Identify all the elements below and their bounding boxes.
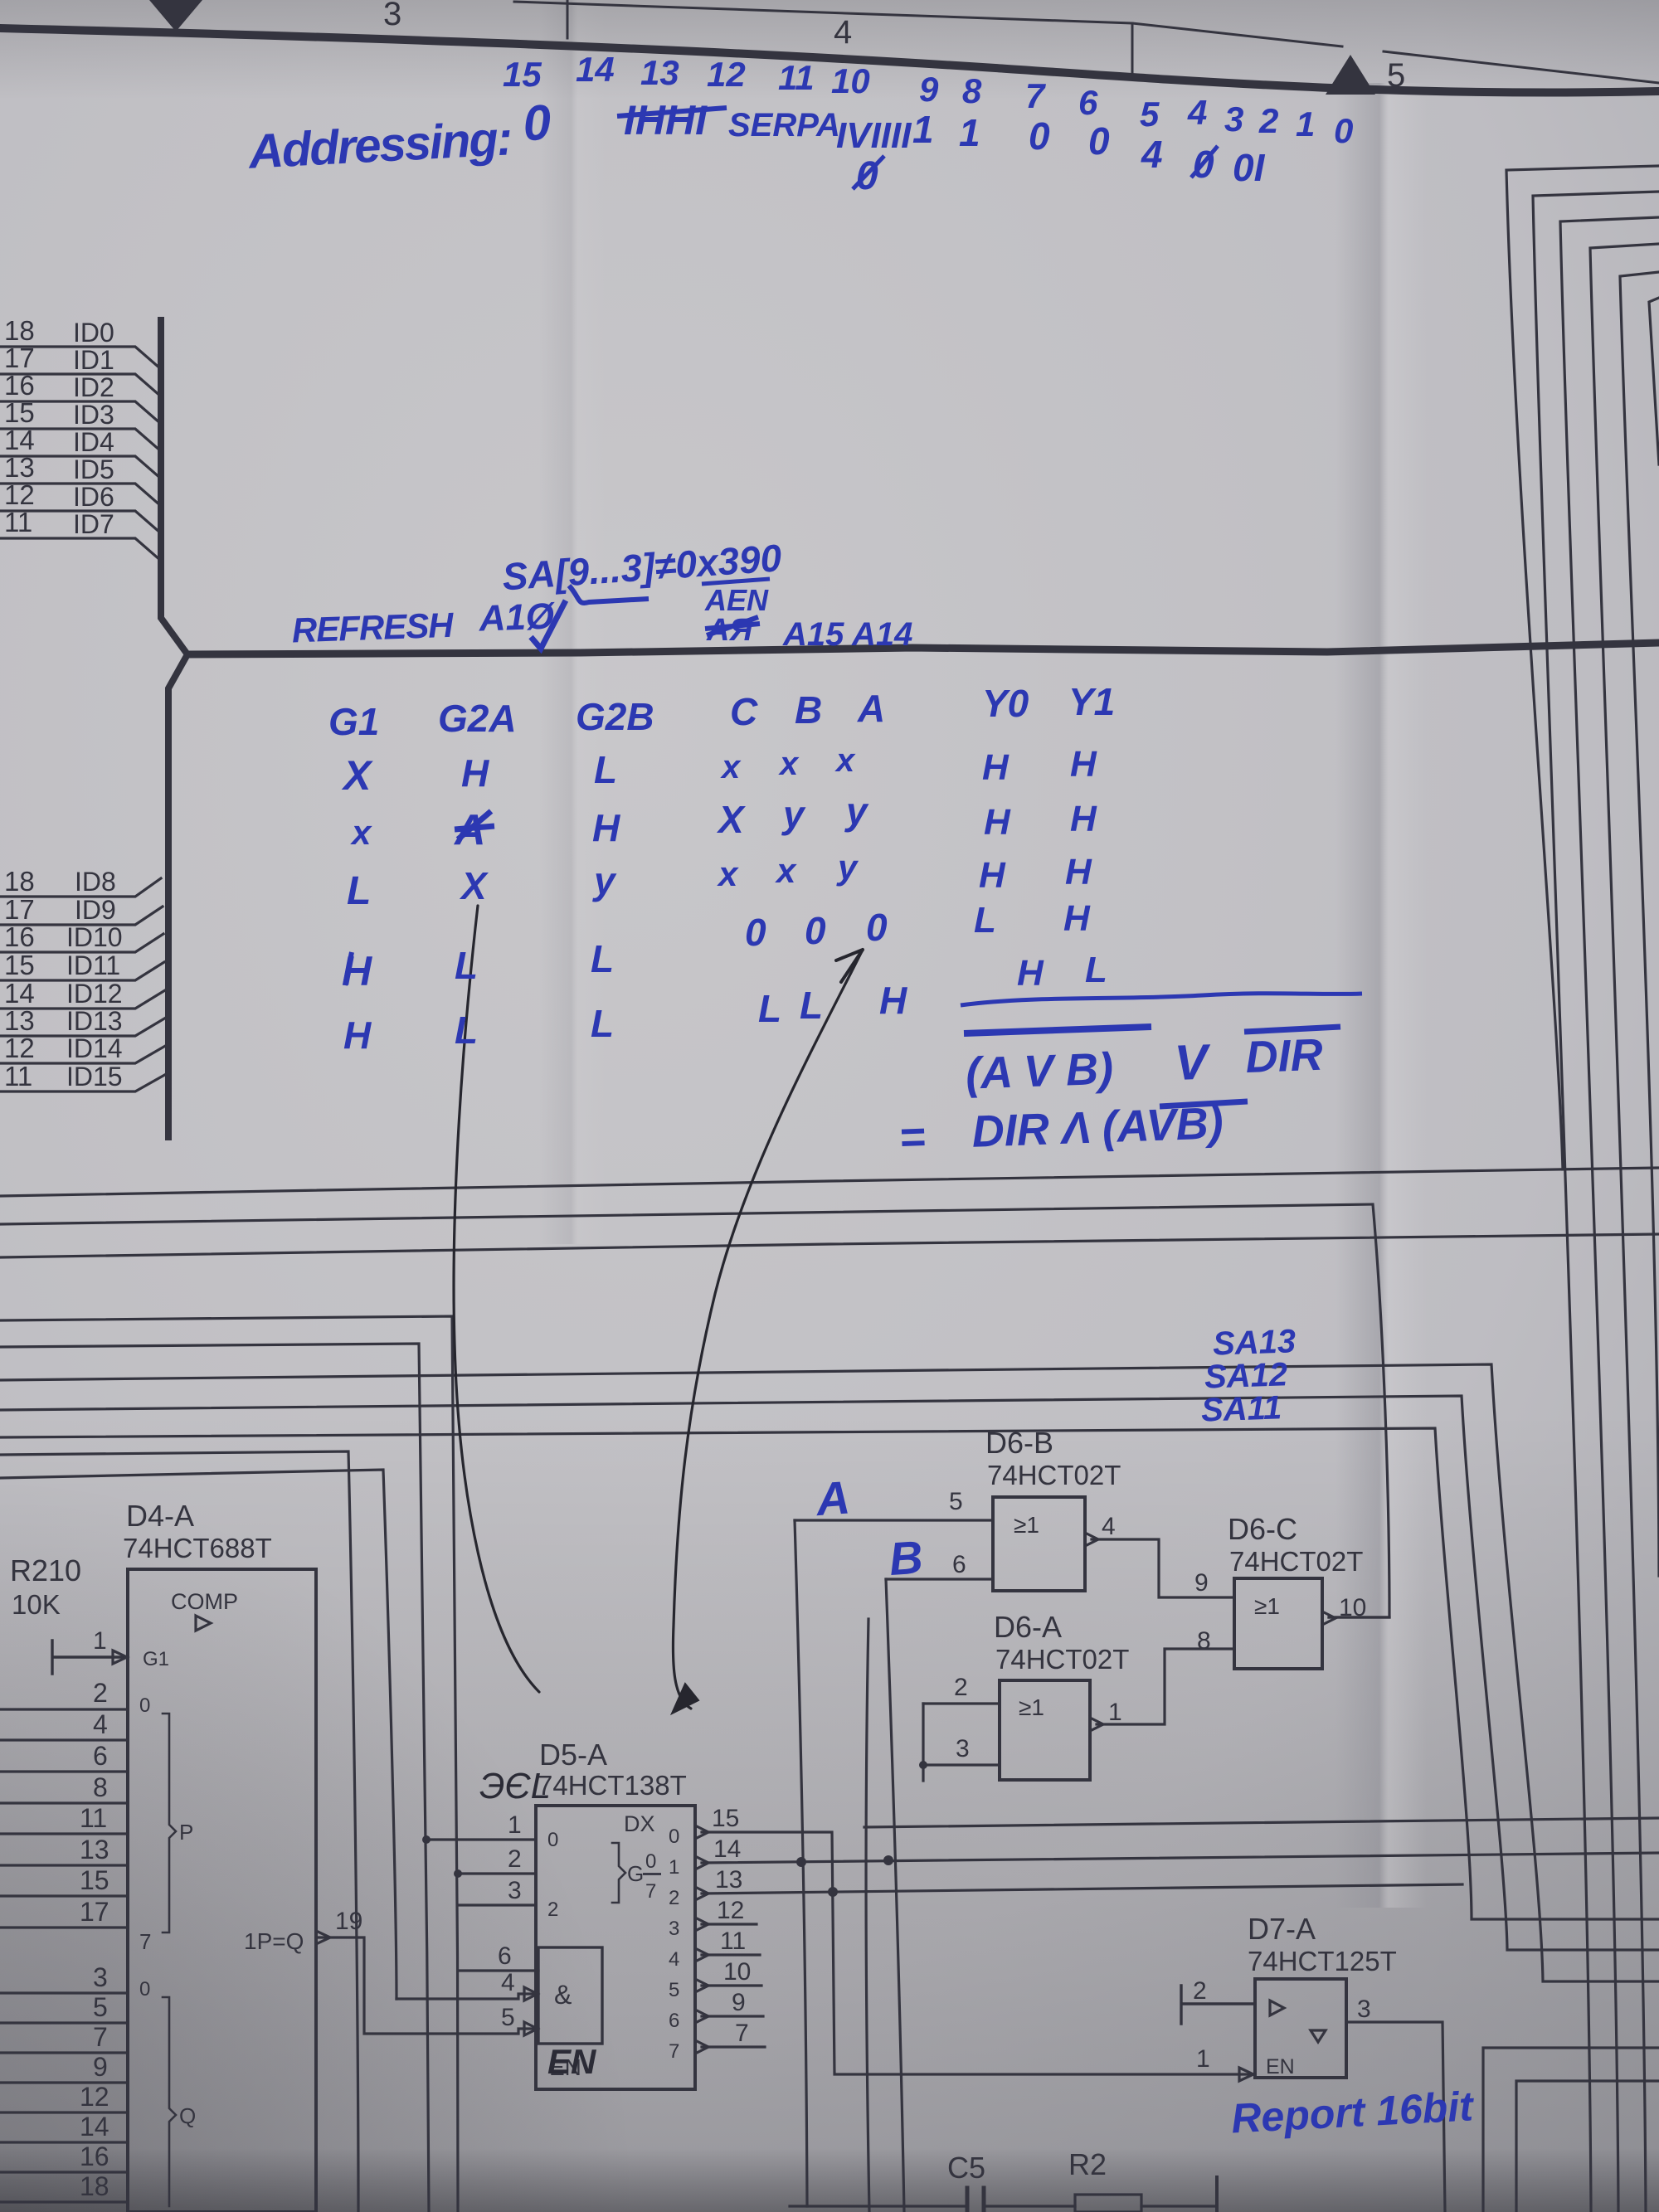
svg-text:6: 6	[93, 1741, 108, 1771]
svg-text:A1Ø: A1Ø	[478, 596, 557, 639]
svg-text:H: H	[1063, 898, 1091, 939]
handwritten note Report 16bit	[1230, 2083, 1477, 2142]
D5 output pin 7 marker	[695, 2040, 708, 2054]
short vertical joining net Y0 row	[866, 1619, 869, 2212]
D4 O-group pin 16 wire	[0, 2171, 128, 2173]
D4 O-group pin 7 wire	[0, 2051, 128, 2054]
net L1 horizontal bus wire	[0, 1168, 1659, 1196]
svg-text:5: 5	[949, 1488, 963, 1515]
svg-text:V: V	[1174, 1033, 1213, 1091]
net SA12 wire	[0, 1396, 1659, 1950]
wire ID12	[0, 990, 165, 1009]
svg-text:3: 3	[956, 1735, 970, 1762]
D5 output pin 12 marker	[695, 1918, 708, 1931]
svg-text:R210: R210	[10, 1553, 81, 1587]
D4 output pin 19 marker	[316, 1931, 330, 1944]
bottom right box corner 1	[1483, 2048, 1659, 2212]
net L9 wire cornering down left of D5	[0, 1451, 358, 2212]
svg-text:L: L	[591, 937, 614, 980]
D5 pin 3 wire	[458, 1903, 536, 1906]
top right nested corner wire 2	[1533, 192, 1659, 2212]
svg-text:15: 15	[80, 1865, 109, 1895]
D5 enable AND sub-block	[538, 1947, 602, 2044]
D4 P-group pin 2 wire	[0, 1708, 128, 1710]
REFRESH A10 note with check	[291, 596, 557, 649]
svg-text:≥1: ≥1	[1014, 1512, 1039, 1538]
capacitor C5 plates	[967, 2188, 984, 2212]
svg-text:ID6: ID6	[73, 482, 114, 512]
svg-text:G: G	[627, 1861, 644, 1886]
svg-text:ID13: ID13	[66, 1006, 123, 1036]
tt row4 G1 H-scribble	[342, 948, 372, 994]
svg-text:5: 5	[1140, 95, 1160, 134]
D6-A pin 2 wire	[923, 1702, 1000, 1704]
svg-text:5: 5	[1387, 57, 1405, 94]
svg-text:2: 2	[669, 1887, 679, 1909]
data bus horizontal main segment	[187, 643, 1659, 654]
svg-text:3: 3	[93, 1962, 108, 1992]
svg-text:0: 0	[1334, 111, 1353, 150]
svg-text:ID0: ID0	[73, 318, 114, 348]
svg-text:7: 7	[139, 1929, 151, 1954]
svg-text:6: 6	[1078, 83, 1098, 122]
svg-text:7: 7	[735, 2020, 749, 2047]
top right nested corner wire 4	[1590, 244, 1659, 2212]
junction D5 pin 2 on L4 vertical	[454, 1869, 462, 1878]
sheet border top thin line	[514, 2, 1659, 83]
hand-drawn arrow curve from D5 area to truth table 0	[673, 950, 863, 1709]
net vertical to D6-A pins 2/3 down to bottom	[922, 1704, 924, 1781]
D5 output pin 11 marker	[695, 1948, 708, 1962]
crossed out A-blob	[705, 613, 760, 648]
wire ID1	[0, 374, 161, 396]
svg-text:B: B	[888, 1530, 925, 1585]
svg-text:(A V B): (A V B)	[965, 1044, 1114, 1099]
svg-text:12: 12	[717, 1897, 744, 1924]
svg-text:y: y	[844, 790, 869, 833]
svg-text:H: H	[879, 979, 907, 1022]
svg-text:D7-A: D7-A	[1248, 1912, 1316, 1946]
handwritten net label SA11	[1200, 1389, 1282, 1428]
svg-text:L: L	[594, 748, 617, 791]
D5 output pin 14 net to right edge	[702, 1853, 1659, 1863]
svg-text:G1: G1	[143, 1648, 169, 1670]
bottom right box corner 2	[1516, 2081, 1659, 2212]
svg-text:H: H	[343, 1014, 372, 1057]
D4 P-group pin 8 wire	[0, 1801, 128, 1804]
svg-text:17: 17	[80, 1897, 109, 1927]
svg-text:15: 15	[4, 950, 35, 980]
svg-text:ЭЄL: ЭЄL	[479, 1766, 551, 1806]
svg-text:≥1: ≥1	[1019, 1694, 1044, 1720]
svg-text:0: 0	[139, 1978, 150, 2001]
svg-text:0: 0	[805, 909, 826, 952]
net L3 horizontal bus wire	[0, 1234, 1659, 1257]
svg-text:3: 3	[508, 1877, 522, 1904]
svg-text:4: 4	[669, 1948, 679, 1971]
svg-text:13: 13	[715, 1866, 742, 1894]
net Y0 horizontal to right edge	[864, 1818, 1659, 1827]
svg-text:AEN: AEN	[704, 583, 769, 617]
wire ID11	[0, 962, 164, 980]
svg-text:A: A	[857, 687, 885, 730]
svg-text:9: 9	[919, 70, 939, 109]
svg-text:D4-A: D4-A	[126, 1499, 194, 1533]
svg-text:1: 1	[1196, 2045, 1210, 2073]
svg-text:ID7: ID7	[73, 509, 114, 539]
svg-text:17: 17	[4, 894, 35, 925]
svg-text:19: 19	[335, 1908, 362, 1935]
svg-text:1: 1	[508, 1811, 522, 1839]
svg-text:16: 16	[4, 921, 35, 952]
svg-text:18: 18	[4, 315, 35, 346]
svg-text:ID2: ID2	[73, 372, 114, 402]
svg-text:0: 0	[1088, 119, 1110, 163]
svg-text:12: 12	[707, 55, 746, 94]
arrowhead of hand-drawn arrow	[836, 950, 863, 982]
vertical stub right of R2	[1215, 2177, 1219, 2212]
svg-text:A15 A14: A15 A14	[782, 616, 912, 653]
svg-text:11: 11	[778, 58, 815, 97]
svg-text:6: 6	[498, 1942, 512, 1970]
resistor R2 body	[1075, 2195, 1141, 2212]
svg-text:L: L	[1085, 950, 1107, 990]
svg-text:0: 0	[866, 906, 888, 949]
svg-text:IVIIII: IVIIII	[836, 115, 912, 156]
svg-text:1: 1	[1108, 1699, 1122, 1726]
svg-text:7: 7	[645, 1880, 656, 1903]
svg-text:6: 6	[669, 2010, 679, 2032]
svg-text:14: 14	[4, 978, 35, 1009]
D4 pin 1 input marker	[113, 1650, 127, 1664]
svg-text:A: A	[813, 1471, 852, 1525]
svg-text:3: 3	[1357, 1996, 1371, 2023]
svg-text:0: 0	[522, 95, 552, 152]
svg-text:4: 4	[1102, 1513, 1116, 1540]
svg-text:L: L	[455, 944, 478, 987]
svg-text:ID9: ID9	[75, 895, 116, 925]
svg-text:x: x	[775, 851, 797, 890]
svg-text:16: 16	[80, 2142, 109, 2171]
D4 P-group pin 11 wire	[0, 1832, 128, 1835]
svg-text:5: 5	[501, 2004, 515, 2031]
svg-text:5: 5	[669, 1979, 679, 2001]
handwritten node label A	[813, 1471, 852, 1525]
wire ID5	[0, 484, 161, 506]
svg-text:G1: G1	[328, 700, 379, 743]
D5 output pin 10 marker	[695, 1979, 708, 1992]
svg-text:3: 3	[1224, 100, 1243, 139]
svg-text:2: 2	[547, 1898, 558, 1921]
svg-text:5: 5	[93, 1992, 108, 2022]
svg-text:4: 4	[93, 1709, 108, 1739]
svg-text:y: y	[836, 848, 859, 887]
svg-text:8: 8	[93, 1772, 108, 1802]
D4 P-group pin 4 wire	[0, 1738, 128, 1741]
svg-text:y: y	[781, 793, 806, 836]
crossed-out HH bits	[617, 97, 727, 143]
AEN label with overline	[702, 579, 770, 617]
D6-C NOR gate body	[1234, 1578, 1322, 1669]
svg-text:x: x	[720, 749, 742, 785]
wire ID3	[0, 429, 161, 451]
D5 output pin 13 marker	[695, 1887, 708, 1900]
junction D5 pin 1	[422, 1835, 431, 1844]
svg-text:0I: 0I	[1233, 146, 1266, 189]
crossed zero below	[853, 154, 884, 198]
svg-text:L: L	[591, 1002, 614, 1045]
top right nested corner wire 3	[1560, 217, 1659, 2212]
svg-text:14: 14	[576, 50, 615, 89]
svg-text:0: 0	[669, 1826, 679, 1848]
svg-text:ID15: ID15	[66, 1062, 123, 1091]
svg-text:D6-C: D6-C	[1228, 1512, 1297, 1546]
svg-text:12: 12	[4, 1033, 35, 1063]
svg-text:2: 2	[954, 1674, 968, 1701]
svg-text:2: 2	[93, 1678, 108, 1708]
wire ID13	[0, 1018, 166, 1036]
border tick between zones 4 and 5	[1131, 23, 1134, 76]
svg-text:11: 11	[4, 1061, 32, 1091]
svg-text:x: x	[350, 813, 372, 852]
svg-text:0: 0	[645, 1850, 656, 1873]
D6-B pin 5 wire	[795, 1519, 993, 1521]
svg-text:6: 6	[952, 1551, 966, 1578]
D5 output pin 9 stub	[702, 2015, 763, 2017]
svg-text:74HCT125T: 74HCT125T	[1248, 1946, 1397, 1976]
D4 O-group bracket	[163, 1997, 176, 2206]
D4 O-group pin 3 wire	[0, 1991, 128, 1994]
svg-text:18: 18	[80, 2171, 109, 2201]
svg-text:H: H	[1070, 799, 1097, 839]
check mark	[531, 600, 566, 649]
svg-text:15: 15	[4, 397, 35, 428]
svg-text:1: 1	[959, 111, 980, 154]
svg-text:10: 10	[831, 61, 870, 100]
D7 buffer body 74HCT125	[1255, 1979, 1346, 2078]
wire R2 to right vertical	[1141, 2205, 1217, 2207]
svg-text:11: 11	[720, 1928, 746, 1955]
D4 P-group pin 6 wire	[0, 1770, 128, 1772]
svg-text:C: C	[730, 690, 758, 733]
D5 output pin 10 stub	[702, 1984, 761, 1986]
svg-text:IHHI: IHHI	[624, 97, 708, 143]
wire ID14	[0, 1045, 167, 1063]
svg-text:G2B: G2B	[576, 695, 654, 738]
svg-text:4: 4	[501, 1969, 515, 1996]
svg-text:7: 7	[93, 2022, 108, 2052]
svg-text:10: 10	[1339, 1594, 1366, 1621]
svg-text:14: 14	[713, 1835, 741, 1863]
handwritten JEL scribble next to D5 label	[479, 1766, 551, 1806]
D4 comparator body 74HCT688	[128, 1569, 316, 2212]
top right nested corner wire 5	[1620, 272, 1659, 1576]
D5 output pin 7 stub	[702, 2045, 765, 2048]
D5 pin 4 wire	[397, 1994, 538, 1999]
svg-text:0: 0	[745, 911, 766, 954]
svg-text:H: H	[1070, 744, 1097, 785]
svg-text:1: 1	[669, 1856, 679, 1879]
svg-text:2: 2	[1193, 1977, 1207, 2005]
svg-text:1: 1	[1296, 105, 1315, 143]
note Addressing: 0	[245, 95, 552, 179]
svg-text:ID12: ID12	[66, 979, 123, 1009]
svg-text:H: H	[982, 747, 1010, 788]
svg-text:DX: DX	[624, 1811, 655, 1836]
svg-text:H: H	[984, 802, 1011, 843]
junction D6-A pin 3	[919, 1761, 927, 1769]
handwritten net label SA12	[1204, 1356, 1288, 1395]
svg-text:ID5: ID5	[73, 455, 114, 484]
svg-text:74HCT138T: 74HCT138T	[538, 1770, 687, 1801]
svg-text:H: H	[1017, 953, 1044, 994]
overline above (AvB)	[1160, 1101, 1248, 1106]
D4 O-group pin 9 wire	[0, 2081, 128, 2083]
svg-text:H: H	[461, 751, 489, 795]
net SA13 wire	[0, 1364, 1659, 1981]
svg-text:x: x	[778, 746, 800, 782]
svg-text:x: x	[717, 854, 739, 893]
D6-B output pin 4 marker	[1085, 1533, 1098, 1546]
svg-text:13: 13	[4, 1005, 35, 1036]
svg-text:G2A: G2A	[438, 697, 517, 740]
svg-text:X: X	[341, 752, 373, 799]
svg-text:1: 1	[912, 108, 934, 151]
formula (A v B) v DIR	[965, 1030, 1324, 1099]
net L2 wire with corner to D6-C output column	[0, 1204, 1389, 1617]
svg-text:H: H	[592, 806, 620, 849]
svg-text:L: L	[758, 987, 781, 1030]
svg-text:14: 14	[4, 425, 35, 455]
svg-text:REFRESH: REFRESH	[291, 605, 455, 650]
svg-text:R2: R2	[1068, 2147, 1107, 2181]
data bus fork to lower segment	[168, 654, 187, 1137]
svg-text:B: B	[795, 688, 822, 732]
D5 output pin 13 net	[702, 1884, 1462, 1894]
long overline above formula	[961, 994, 1362, 1005]
net L5 wire cornering down to D5 pin 1	[0, 1344, 429, 2212]
svg-text:H: H	[1065, 852, 1092, 892]
D4 P-group pin 17 wire	[0, 1926, 128, 1928]
bottom wire into capacitor C5	[790, 2205, 965, 2207]
svg-text:ID1: ID1	[73, 345, 114, 375]
svg-text:11: 11	[80, 1803, 107, 1833]
net L10 wire cornering down to D5 pin 4	[0, 1470, 397, 1999]
svg-text:12: 12	[4, 479, 35, 510]
D4 COMP function triangle	[196, 1616, 211, 1631]
svg-text:Y0: Y0	[982, 682, 1029, 725]
svg-text:X: X	[716, 798, 746, 841]
svg-text:Q: Q	[179, 2103, 196, 2128]
wire ID2	[0, 401, 161, 424]
svg-text:L: L	[974, 900, 996, 941]
svg-text:X: X	[459, 864, 489, 907]
svg-text:13: 13	[4, 452, 35, 483]
D5 output pin 14 marker	[695, 1856, 708, 1869]
svg-text:1: 1	[93, 1627, 107, 1655]
D6-A pin 3 wire	[923, 1763, 1000, 1766]
wire ID6	[0, 511, 161, 533]
D4 O-group pin 18 wire	[0, 2200, 128, 2203]
svg-text:ID11: ID11	[66, 950, 120, 980]
svg-text:COMP: COMP	[171, 1589, 238, 1614]
hand-drawn curve from truth table X to D5 label	[454, 906, 539, 1692]
brace squiggle under SA note	[569, 586, 649, 603]
svg-text:7: 7	[669, 2040, 679, 2063]
D4 O-group pin 12 wire	[0, 2111, 128, 2113]
net A vertical from D6-B pin 5 down to bottom	[795, 1520, 807, 2206]
short double overline	[964, 1027, 1151, 1033]
wire ID7	[0, 538, 161, 561]
svg-text:74HCT02T: 74HCT02T	[1229, 1546, 1363, 1577]
svg-text:Y1: Y1	[1068, 680, 1115, 723]
svg-text:P: P	[179, 1820, 193, 1845]
D7 pin 2 wire with T terminator	[1181, 1986, 1255, 2024]
D6-B NOR gate body	[993, 1497, 1085, 1591]
svg-text:3: 3	[383, 0, 401, 32]
svg-text:D6-B: D6-B	[985, 1426, 1053, 1460]
svg-text:4: 4	[1187, 93, 1207, 132]
top right nested corner wire 1	[1506, 166, 1659, 1169]
svg-text:H: H	[979, 855, 1006, 896]
D5 decoder body 74HCT138	[536, 1806, 695, 2089]
wire ID0	[0, 347, 161, 369]
svg-text:ID10: ID10	[66, 922, 123, 952]
svg-text:8: 8	[962, 71, 982, 110]
D6-B output pin 4 wire to D6-C pin 9	[1092, 1539, 1234, 1597]
svg-text:16: 16	[4, 370, 35, 401]
sheet border top thick line	[0, 28, 1659, 93]
svg-text:ID3: ID3	[73, 400, 114, 430]
svg-text:L: L	[455, 1009, 478, 1052]
D5 output pin 12 stub	[702, 1923, 757, 1925]
junction net B with pin14 net	[883, 1855, 893, 1865]
wire ID8	[0, 878, 161, 897]
hook arrowhead at lower end of arrow curve	[672, 1684, 698, 1714]
D5 pin 5 input marker	[524, 2022, 538, 2035]
svg-text:1P=Q: 1P=Q	[244, 1928, 304, 1954]
svg-text:&: &	[554, 1980, 572, 2010]
D5 pin 1 wire	[426, 1838, 536, 1840]
wire C5 to R2	[987, 2205, 1075, 2207]
bit value 0 crossed	[1191, 143, 1218, 186]
svg-text:74HCT02T: 74HCT02T	[995, 1644, 1129, 1675]
zone marker triangle up	[1326, 55, 1375, 95]
handwritten EN overwrite in D5	[547, 2042, 597, 2081]
svg-text:C5: C5	[947, 2151, 985, 2185]
svg-text:SA11: SA11	[1200, 1389, 1282, 1428]
svg-text:L: L	[800, 984, 823, 1027]
wire ID15	[0, 1073, 168, 1091]
svg-text:ID14: ID14	[66, 1033, 123, 1063]
D7 tristate triangle symbol	[1311, 2030, 1326, 2042]
wire ID9	[0, 907, 163, 925]
svg-text:14: 14	[80, 2112, 109, 2142]
svg-text:12: 12	[80, 2082, 109, 2112]
D5 output pin 15 marker	[695, 1826, 708, 1839]
svg-text:EN: EN	[1266, 2055, 1295, 2078]
svg-text:13: 13	[80, 1835, 109, 1864]
D5 pin 6 wire	[458, 1969, 538, 1971]
svg-text:18: 18	[4, 866, 35, 897]
D5 pin 4 input marker	[524, 1987, 538, 2001]
D7 pin 1 input marker	[1239, 2068, 1253, 2081]
svg-text:2: 2	[1258, 101, 1278, 140]
svg-text:ID4: ID4	[73, 427, 114, 457]
D4 P-group pin 13 wire	[0, 1864, 128, 1866]
svg-text:11: 11	[4, 507, 32, 537]
D5 output pin 9 marker	[695, 2010, 708, 2023]
